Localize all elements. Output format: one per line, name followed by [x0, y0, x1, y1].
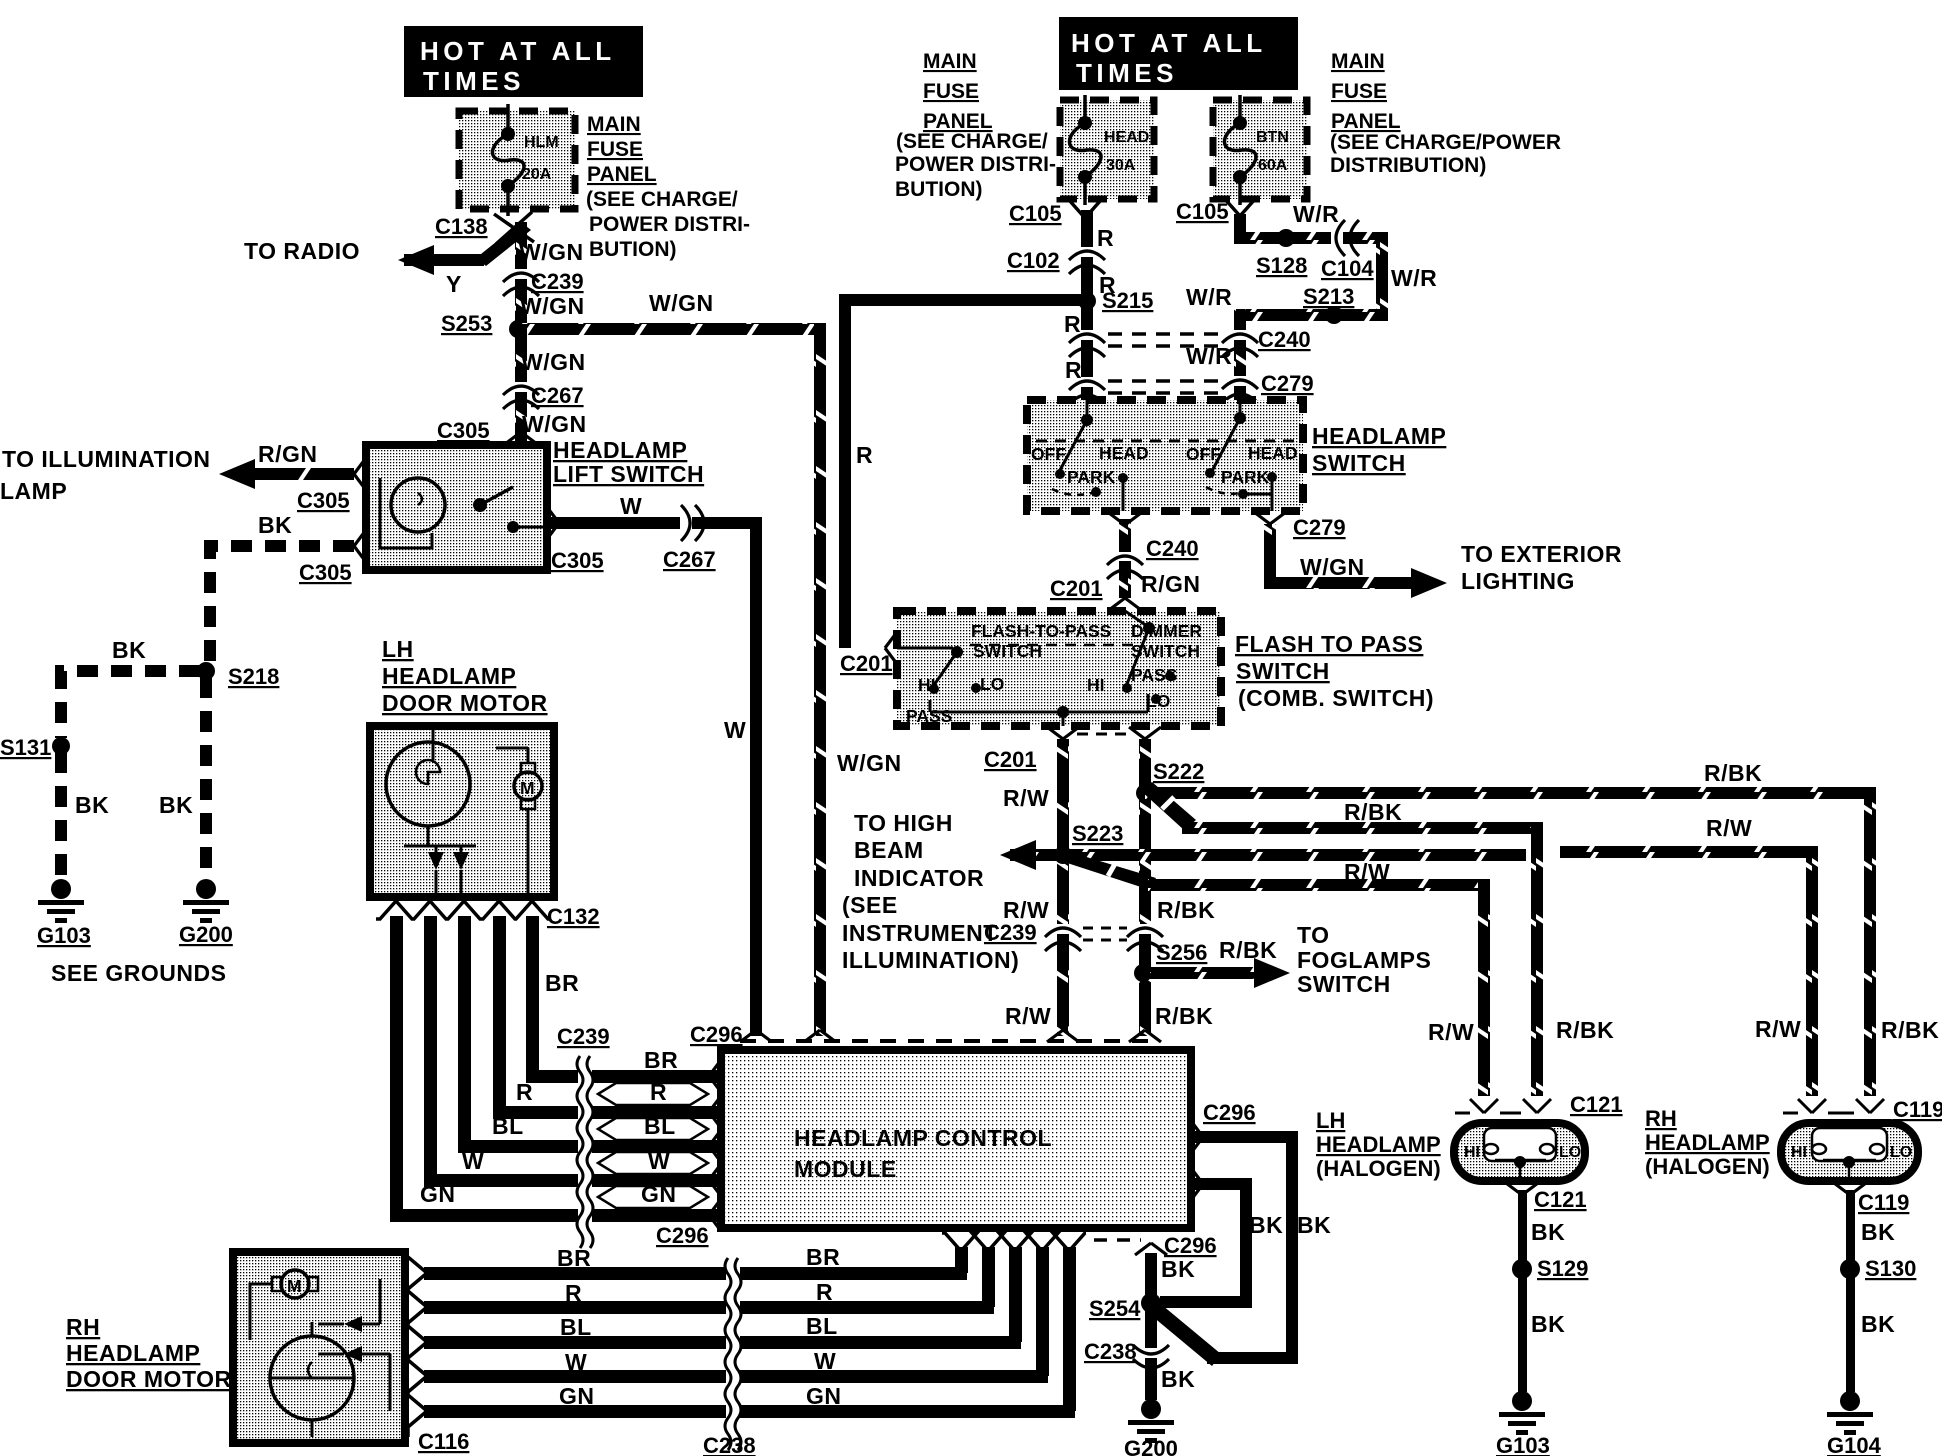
label BK (RH) — [1861, 1219, 1895, 1245]
svg-text:TO RADIO: TO RADIO — [244, 238, 360, 264]
svg-text:S223: S223 — [1072, 821, 1123, 846]
wire R/W S223 to RH headlamp — [1069, 846, 1818, 1096]
splice S222 — [1136, 759, 1204, 802]
label R/W (above C239) — [1003, 897, 1049, 923]
label MAIN FUSE PANEL (right) — [1330, 50, 1561, 177]
connector C296 (right of HCM) — [1191, 1100, 1256, 1200]
svg-text:C239: C239 — [557, 1024, 610, 1049]
svg-text:SWITCH: SWITCH — [973, 641, 1042, 661]
svg-text:SWITCH: SWITCH — [1297, 971, 1391, 997]
label R/BK (top right) — [1704, 760, 1762, 786]
label HEADLAMP LIFT SWITCH — [553, 437, 704, 487]
wire W from LH door motor — [424, 916, 592, 1187]
svg-text:BK: BK — [1297, 1212, 1331, 1238]
svg-text:LO: LO — [980, 674, 1004, 694]
svg-text:C116: C116 — [418, 1429, 469, 1454]
flash-to-pass switch internals — [897, 621, 1148, 726]
svg-text:G200: G200 — [179, 922, 233, 947]
wire W/GN vertical from C138 to S253 — [514, 222, 528, 323]
svg-text:(SEE: (SEE — [842, 892, 898, 918]
connector C305 (lift switch W side) — [551, 548, 604, 573]
svg-text:R/W: R/W — [1755, 1016, 1801, 1042]
lift switch internals — [380, 478, 545, 548]
svg-text:PARK: PARK — [1067, 467, 1116, 487]
svg-text:FUSE: FUSE — [923, 80, 979, 103]
wire W/R from fuse BTN to C104 — [1234, 214, 1331, 244]
svg-text:HEADLAMP: HEADLAMP — [382, 663, 516, 689]
svg-text:HOT AT ALL: HOT AT ALL — [420, 36, 616, 66]
svg-text:ILLUMINATION): ILLUMINATION) — [842, 947, 1019, 973]
svg-text:LH: LH — [382, 636, 414, 662]
svg-text:PARK: PARK — [1221, 467, 1270, 487]
svg-text:TIMES: TIMES — [423, 66, 525, 96]
label BL (RH right) — [806, 1313, 838, 1339]
connector C119 (bottom) — [1834, 1183, 1909, 1215]
headlamp control module box — [721, 1050, 1191, 1228]
svg-text:S129: S129 — [1537, 1256, 1588, 1281]
label W/GN (below C267) — [521, 349, 586, 375]
svg-text:W/GN: W/GN — [521, 349, 586, 375]
power label HOT AT ALL TIMES (left) — [404, 26, 643, 97]
wire W/GN to exterior lighting — [1254, 512, 1447, 598]
svg-text:C296: C296 — [1164, 1233, 1217, 1258]
label R/W (LH drop) — [1428, 1019, 1474, 1045]
harness break C239 (lower) — [557, 1024, 610, 1248]
svg-text:SEE GROUNDS: SEE GROUNDS — [51, 960, 226, 986]
wire BK S218 to G200 — [200, 677, 212, 880]
headlamp switch internals left — [1031, 400, 1294, 511]
splice S129 — [1512, 1256, 1588, 1281]
label R/W (RH drop) — [1755, 1016, 1801, 1042]
label R (above C240) — [1064, 311, 1081, 337]
svg-text:S213: S213 — [1303, 284, 1354, 309]
label BK (inner) — [1249, 1212, 1283, 1238]
svg-text:MAIN: MAIN — [1331, 50, 1385, 73]
label BK (RH lower) — [1861, 1311, 1895, 1337]
svg-text:W: W — [814, 1348, 836, 1374]
svg-text:PANEL: PANEL — [1331, 110, 1401, 133]
wire BK C296 to S254 — [1145, 1253, 1157, 1303]
connector C240 (below switch) — [1107, 536, 1199, 579]
wire R horizontal corner to S215 — [839, 294, 1087, 648]
svg-text:BTN: BTN — [1256, 129, 1289, 146]
svg-text:(HALOGEN): (HALOGEN) — [1645, 1154, 1770, 1179]
label R/W (to RH) — [1706, 815, 1752, 841]
svg-text:OFF: OFF — [1031, 444, 1066, 464]
svg-text:C267: C267 — [531, 383, 584, 408]
connector C305 (left of lift switch) — [297, 488, 350, 513]
connector C279 (left half) — [1069, 381, 1228, 404]
svg-text:HEADLAMP: HEADLAMP — [1312, 423, 1446, 449]
connector C121 (bottom) — [1506, 1183, 1587, 1212]
wire BR from LH door motor — [526, 916, 592, 1083]
svg-text:S128: S128 — [1256, 253, 1307, 278]
RH headlamp (halogen) bulb — [1781, 1123, 1918, 1181]
label BK (left drop) — [75, 792, 109, 818]
svg-text:C279: C279 — [1293, 515, 1346, 540]
label W (RH right) — [814, 1348, 836, 1374]
svg-text:R: R — [1097, 225, 1114, 251]
connector C267 (on W/GN) — [503, 383, 584, 409]
label BK (lift switch) — [258, 512, 292, 538]
svg-text:R/BK: R/BK — [1556, 1017, 1614, 1043]
svg-text:W/R: W/R — [1186, 284, 1232, 310]
connector C279 (below switch) — [1293, 515, 1346, 540]
svg-text:C240: C240 — [1146, 536, 1199, 561]
svg-text:BK: BK — [1861, 1311, 1895, 1337]
svg-text:S254: S254 — [1089, 1296, 1141, 1321]
svg-text:S256: S256 — [1156, 940, 1207, 965]
svg-text:S253: S253 — [441, 311, 492, 336]
connector C267 (on W wire) — [663, 505, 716, 572]
label FLASH TO PASS SWITCH (COMB. SWITCH) — [1235, 631, 1434, 711]
svg-text:C239: C239 — [531, 269, 584, 294]
svg-text:FLASH-TO-PASS: FLASH-TO-PASS — [971, 621, 1111, 641]
svg-text:MAIN: MAIN — [923, 50, 977, 73]
label R/BK (HCM top) — [1155, 1003, 1213, 1029]
wire BK HCM to S254 (inner) — [1160, 1178, 1252, 1308]
wire W/GN long vertical to C296 — [814, 323, 902, 1036]
label BK (below C238) — [1161, 1366, 1195, 1392]
svg-text:HI: HI — [918, 675, 936, 695]
wire R/BK S222 branch to LH headlamp — [1140, 782, 1543, 1096]
label HEADLAMP SWITCH — [1312, 423, 1446, 476]
headlamp switch internals right — [1186, 400, 1298, 511]
svg-text:R/W: R/W — [1003, 785, 1049, 811]
svg-text:BK: BK — [1161, 1256, 1195, 1282]
svg-text:R/W: R/W — [1428, 1019, 1474, 1045]
svg-text:HEAD: HEAD — [1099, 443, 1149, 463]
svg-text:BL: BL — [644, 1113, 676, 1139]
svg-text:W/R: W/R — [1391, 265, 1437, 291]
fuse BTN 60A — [1213, 95, 1307, 205]
connector C119 (top) — [1783, 1097, 1942, 1122]
svg-text:W/GN: W/GN — [519, 239, 584, 265]
label R (on R vertical) — [856, 442, 873, 468]
svg-text:SWITCH: SWITCH — [1312, 450, 1406, 476]
label GN (to HCM) — [641, 1181, 677, 1207]
svg-text:FUSE: FUSE — [1331, 80, 1387, 103]
wire BK LH headlamp to S129 — [1518, 1190, 1527, 1262]
label W/R (right) — [1391, 265, 1437, 291]
svg-text:W: W — [724, 717, 746, 743]
wire W/GN horizontal S253 to corner — [512, 290, 826, 335]
label R (above C279) — [1065, 357, 1082, 383]
wire arrow to foglamps switch — [1150, 958, 1290, 988]
svg-text:BR: BR — [557, 1245, 591, 1271]
fuse HLM 20A in main fuse panel (left) — [459, 104, 575, 216]
svg-text:LO: LO — [1146, 691, 1170, 711]
label W (horizontal) — [620, 493, 642, 519]
wire R/BK from flash-to-pass down to HCM — [1077, 727, 1161, 1036]
label TO FOGLAMPS SWITCH — [1297, 922, 1431, 997]
svg-text:C104: C104 — [1321, 256, 1374, 281]
svg-text:W: W — [565, 1349, 587, 1375]
wire BL from RH door motor — [424, 1336, 727, 1349]
svg-text:R/W: R/W — [1706, 815, 1752, 841]
svg-text:HEAD: HEAD — [1248, 443, 1298, 463]
wire BK S254 to C238 — [1144, 1303, 1158, 1400]
svg-text:W: W — [462, 1148, 484, 1174]
LH headlamp door motor box — [370, 726, 554, 897]
wire W/R C104 to S213 corner — [1240, 232, 1388, 321]
svg-text:BK: BK — [258, 512, 292, 538]
svg-text:M: M — [520, 778, 535, 798]
label R/BK (above C239) — [1157, 897, 1215, 923]
svg-text:RH: RH — [66, 1314, 100, 1340]
svg-text:R/GN: R/GN — [1141, 571, 1201, 597]
svg-text:HEADLAMP: HEADLAMP — [1645, 1130, 1770, 1155]
label R/W (HCM top) — [1005, 1003, 1051, 1029]
svg-text:TO: TO — [1297, 922, 1330, 948]
connector C105 (right) — [1176, 198, 1256, 224]
svg-text:C296: C296 — [690, 1022, 743, 1047]
wire R/BK S222 to RH headlamp — [1145, 787, 1876, 1096]
svg-text:LIFT SWITCH: LIFT SWITCH — [553, 461, 704, 487]
splice S130 — [1840, 1256, 1916, 1281]
svg-text:W: W — [648, 1148, 670, 1174]
svg-text:DOOR MOTOR: DOOR MOTOR — [382, 690, 548, 716]
label TO EXTERIOR LIGHTING — [1461, 541, 1622, 594]
wire W/R down to headlamp switch — [1233, 309, 1247, 406]
svg-text:HI: HI — [1791, 1144, 1807, 1161]
svg-text:C279: C279 — [1261, 371, 1314, 396]
label SEE GROUNDS — [51, 960, 226, 986]
label RH HEADLAMP (HALOGEN) — [1645, 1106, 1770, 1179]
connector C121 (top) — [1455, 1092, 1623, 1117]
label R/BK (at S256) — [1219, 937, 1277, 963]
splice S256 — [1134, 940, 1207, 982]
label R/W (branch) — [1344, 859, 1390, 885]
svg-text:C201: C201 — [984, 747, 1037, 772]
svg-text:BK: BK — [1531, 1311, 1565, 1337]
label W/R (left of S213) — [1186, 284, 1232, 310]
connector C138 — [435, 212, 534, 244]
svg-text:R/BK: R/BK — [1219, 937, 1277, 963]
svg-text:G103: G103 — [1496, 1433, 1550, 1456]
svg-text:BK: BK — [1531, 1219, 1565, 1245]
connector C240 (left half) — [1069, 334, 1228, 357]
svg-text:PANEL: PANEL — [587, 163, 657, 186]
svg-text:Y: Y — [446, 271, 462, 297]
svg-text:LO: LO — [1890, 1144, 1912, 1161]
svg-text:60A: 60A — [1258, 157, 1288, 174]
wire R/W S223 branch to LH headlamp — [1058, 852, 1490, 1096]
splice S131 — [0, 735, 70, 760]
svg-text:C240: C240 — [1258, 327, 1311, 352]
label RH HEADLAMP DOOR MOTOR — [66, 1314, 232, 1392]
flash to pass switch box — [897, 611, 1221, 726]
svg-text:BK: BK — [1861, 1219, 1895, 1245]
splice S213 — [1303, 284, 1354, 324]
svg-text:SWITCH: SWITCH — [1236, 658, 1330, 684]
svg-text:R: R — [816, 1279, 833, 1305]
svg-text:G200: G200 — [1124, 1436, 1178, 1456]
svg-text:BL: BL — [492, 1113, 524, 1139]
RH door motor internals — [250, 1270, 390, 1437]
svg-text:C305: C305 — [551, 548, 604, 573]
label TO ILLUMINATION LAMP — [0, 446, 211, 504]
label Y — [446, 271, 462, 297]
svg-text:INDICATOR: INDICATOR — [854, 865, 984, 891]
label BK (S218 drop) — [159, 792, 193, 818]
svg-text:HOT AT ALL: HOT AT ALL — [1071, 28, 1267, 58]
connector C296 (top of HCM) — [690, 1022, 1161, 1047]
svg-text:(SEE CHARGE/POWER: (SEE CHARGE/POWER — [1330, 131, 1561, 154]
svg-text:INSTRUMENT: INSTRUMENT — [842, 920, 998, 946]
wire R/GN headlamp switch to flash-to-pass — [1109, 513, 1141, 610]
svg-text:LO: LO — [1559, 1144, 1581, 1161]
headlamp switch box — [1027, 400, 1303, 511]
svg-text:R/BK: R/BK — [1704, 760, 1762, 786]
svg-text:HEADLAMP: HEADLAMP — [1316, 1132, 1441, 1157]
svg-text:HEAD: HEAD — [1104, 129, 1149, 146]
label BR (RH left) — [557, 1245, 591, 1271]
label BK (outer) — [1297, 1212, 1331, 1238]
connector C240 (right half) — [1222, 327, 1311, 357]
label W/GN (above S253) — [520, 293, 585, 319]
wire BK lift switch to S218 — [210, 530, 366, 668]
svg-text:BUTION): BUTION) — [895, 178, 983, 201]
svg-text:FOGLAMPS: FOGLAMPS — [1297, 947, 1431, 973]
wires RH door motor to HCM bottom — [955, 1247, 1076, 1411]
label R (RH left) — [565, 1280, 582, 1306]
label W/GN (above C305) — [522, 411, 587, 437]
svg-text:C238: C238 — [703, 1433, 756, 1456]
label W/GN (below C138) — [519, 239, 584, 265]
svg-text:W/GN: W/GN — [837, 750, 902, 776]
wire BK S130 to G104 — [1846, 1276, 1855, 1392]
svg-text:BK: BK — [159, 792, 193, 818]
label W (vertical) — [724, 717, 746, 743]
connector C305 (top of lift switch) — [437, 418, 537, 444]
svg-text:PASS: PASS — [1131, 665, 1177, 685]
connector C238 (BK wire) — [1084, 1339, 1169, 1368]
svg-text:BEAM: BEAM — [854, 837, 924, 863]
svg-text:W/GN: W/GN — [522, 411, 587, 437]
svg-text:(COMB. SWITCH): (COMB. SWITCH) — [1238, 685, 1434, 711]
svg-text:BL: BL — [806, 1313, 838, 1339]
svg-text:C132: C132 — [547, 904, 600, 929]
wire BK RH headlamp to S130 — [1846, 1190, 1855, 1262]
splice S253 — [441, 311, 527, 338]
svg-text:GN: GN — [420, 1181, 456, 1207]
svg-text:S222: S222 — [1153, 759, 1204, 784]
svg-text:R: R — [650, 1079, 667, 1105]
svg-text:BR: BR — [545, 970, 579, 996]
svg-text:LH: LH — [1316, 1108, 1345, 1133]
splice S254 — [1089, 1293, 1161, 1321]
svg-text:S131: S131 — [0, 735, 51, 760]
svg-text:BL: BL — [560, 1314, 592, 1340]
label R/W (above S223) — [1003, 785, 1049, 811]
connector C105 (left) — [1009, 200, 1101, 226]
wire Y to radio with arrow — [398, 222, 531, 275]
wire R/W from flash-to-pass down to HCM — [1047, 727, 1079, 1036]
svg-text:R/BK: R/BK — [1157, 897, 1215, 923]
label TO HIGH BEAM INDICATOR — [842, 810, 1019, 973]
svg-text:DISTRIBUTION): DISTRIBUTION) — [1330, 154, 1486, 177]
svg-text:BR: BR — [644, 1047, 678, 1073]
connector C239 (top) — [503, 269, 584, 296]
label BL (left) — [492, 1113, 524, 1139]
label R/BK (RH drop) — [1881, 1017, 1939, 1043]
label R (below C105) — [1097, 225, 1114, 251]
connector C201 (below flash-to-pass) — [984, 747, 1037, 772]
label W/R (top) — [1293, 201, 1339, 227]
label GN (RH right) — [806, 1383, 842, 1409]
svg-text:FLASH TO PASS: FLASH TO PASS — [1235, 631, 1423, 657]
label R (to HCM) — [650, 1079, 667, 1105]
svg-text:C138: C138 — [435, 214, 488, 239]
svg-text:G103: G103 — [37, 923, 91, 948]
connector C132 — [376, 901, 600, 929]
label BL (RH left) — [560, 1314, 592, 1340]
connector C239 (middle) — [984, 920, 1163, 951]
connector C104 — [1321, 220, 1374, 281]
svg-text:C305: C305 — [437, 418, 490, 443]
svg-text:BR: BR — [806, 1244, 840, 1270]
ground G200 (bottom) — [1124, 1399, 1178, 1456]
wire W from RH door motor — [424, 1370, 727, 1383]
label R/BK (branch) — [1344, 799, 1402, 825]
svg-text:OFF: OFF — [1186, 444, 1221, 464]
label LH HEADLAMP DOOR MOTOR — [382, 636, 548, 716]
svg-text:BK: BK — [1161, 1366, 1195, 1392]
ground G104 — [1827, 1391, 1882, 1456]
wire R fuse HEAD to S215 — [1080, 210, 1094, 302]
label LH HEADLAMP (HALOGEN) — [1316, 1108, 1441, 1181]
svg-text:S215: S215 — [1102, 288, 1153, 313]
svg-text:(SEE CHARGE/: (SEE CHARGE/ — [896, 130, 1048, 153]
ground G200 (left) — [179, 879, 233, 947]
label W/GN (exterior) — [1300, 554, 1365, 580]
svg-text:GN: GN — [641, 1181, 677, 1207]
power label HOT AT ALL TIMES (right) — [1059, 17, 1298, 90]
label R (below C102) — [1099, 272, 1116, 298]
svg-text:C119: C119 — [1893, 1097, 1942, 1122]
svg-text:W/R: W/R — [1186, 343, 1232, 369]
svg-text:HI: HI — [1087, 675, 1105, 695]
svg-text:DOOR MOTOR: DOOR MOTOR — [66, 1366, 232, 1392]
label R (RH right) — [816, 1279, 833, 1305]
splice S223 — [1054, 821, 1123, 864]
svg-text:R/BK: R/BK — [1881, 1017, 1939, 1043]
svg-text:C105: C105 — [1009, 201, 1062, 226]
svg-text:C119: C119 — [1858, 1190, 1909, 1215]
svg-text:LAMP: LAMP — [0, 478, 67, 504]
svg-text:MODULE: MODULE — [794, 1156, 897, 1182]
svg-text:W/R: W/R — [1293, 201, 1339, 227]
svg-text:W: W — [620, 493, 642, 519]
svg-text:BK: BK — [112, 637, 146, 663]
svg-text:20A: 20A — [522, 166, 552, 183]
svg-text:TO EXTERIOR: TO EXTERIOR — [1461, 541, 1622, 567]
label W/R (above C279 right) — [1186, 343, 1232, 369]
wire GN from RH door motor — [424, 1405, 727, 1418]
svg-text:C201: C201 — [840, 651, 893, 676]
wire BK S131 to G103 — [55, 752, 67, 880]
svg-text:LIGHTING: LIGHTING — [1461, 568, 1575, 594]
connector C102 — [1007, 248, 1105, 274]
connector C201 (below C240) — [1050, 576, 1103, 601]
label BK (LH lower) — [1531, 1311, 1565, 1337]
RH headlamp door motor box — [233, 1252, 405, 1443]
svg-text:R: R — [1065, 357, 1082, 383]
svg-text:C238: C238 — [1084, 1339, 1137, 1364]
label MAIN FUSE PANEL (middle) — [895, 50, 1056, 201]
svg-text:HEADLAMP: HEADLAMP — [66, 1340, 200, 1366]
